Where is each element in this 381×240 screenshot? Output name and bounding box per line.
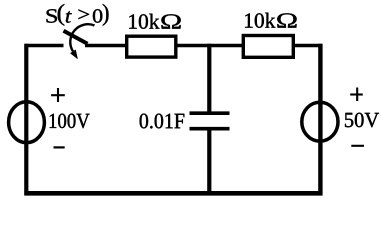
wire bottom [24, 191, 322, 196]
source V2 plus [350, 88, 363, 102]
capacitor stub bottom wire [207, 130, 211, 195]
capacitor stub top wire [207, 44, 211, 112]
wire switch to R1 [85, 44, 127, 47]
wire R1 to R2 [176, 44, 243, 47]
source V1 value 100V [50, 114, 90, 129]
resistor R2 value 10kΩ [245, 13, 297, 28]
capacitor C bottom plate [190, 127, 230, 131]
source V2 minus [351, 145, 364, 147]
switch S blade [64, 31, 88, 44]
source V2 circle [302, 102, 338, 141]
wire R2 to right corner [294, 44, 322, 47]
switch label S(t > 0) [47, 4, 109, 26]
capacitor value 0.01F [140, 114, 185, 129]
switch closing arrow [70, 24, 94, 59]
wire right vertical [318, 44, 322, 196]
source V1 circle [9, 102, 45, 143]
source V2 value 50V [345, 113, 379, 128]
resistor R2 box [243, 36, 293, 58]
resistor R1 value 10kΩ [129, 14, 181, 29]
source V1 minus [54, 146, 65, 148]
wire top-left segment [25, 44, 64, 47]
wire left vertical [24, 44, 28, 196]
source V1 plus [51, 88, 65, 102]
resistor R1 box [127, 36, 176, 57]
capacitor C top plate [190, 111, 230, 115]
